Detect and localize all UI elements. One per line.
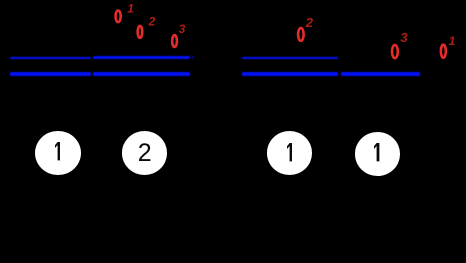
wire: tiny tick after left top segment: [192, 56, 194, 59]
wire: left bottom segment 2: [93, 72, 190, 75]
label 0^1 left: [116, 2, 135, 22]
svg-text:1: 1: [449, 34, 456, 48]
svg-text:2: 2: [148, 15, 156, 29]
svg-text:2: 2: [305, 15, 314, 30]
node 1 (middle): [267, 131, 313, 175]
label 0^3 left: [172, 22, 185, 47]
node 2: [122, 131, 168, 175]
svg-text:3: 3: [179, 22, 186, 36]
label 0^2 left: [138, 15, 156, 38]
wire: left bottom segment 1: [10, 72, 91, 75]
svg-text:3: 3: [400, 30, 408, 45]
wire: right bottom segment 1: [242, 72, 339, 75]
label 0^2 right: [298, 15, 314, 41]
wire: right top thin segment: [242, 57, 339, 59]
label 0^1 right: [441, 34, 456, 58]
wire: left top thin segment: [10, 57, 91, 59]
wire: right bottom segment 2: [341, 72, 421, 75]
node 1 (left): [35, 131, 81, 175]
wire: left top thick segment: [93, 56, 190, 59]
label 0^3 right: [392, 30, 408, 58]
node 1 (right): [355, 132, 401, 176]
svg-text:1: 1: [127, 2, 134, 16]
